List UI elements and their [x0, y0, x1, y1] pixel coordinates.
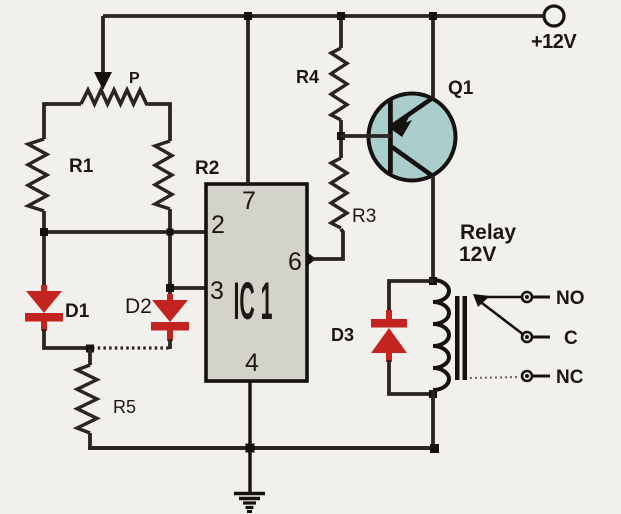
wire pin 4 to ground — [248, 381, 251, 492]
wire R4 top — [339, 16, 343, 48]
node R1 pin2 junction — [40, 228, 48, 236]
diode D3 — [371, 310, 407, 362]
node bottom rail right end — [430, 444, 439, 453]
svg-text:R2: R2 — [195, 158, 219, 179]
svg-text:3: 3 — [210, 277, 224, 305]
relay coil — [433, 280, 449, 390]
svg-text:12V: 12V — [459, 243, 496, 266]
svg-text:Relay: Relay — [460, 221, 516, 244]
contact C — [522, 332, 550, 342]
node R5 top junction — [86, 345, 94, 353]
node R2 pin2 junction — [167, 229, 174, 236]
svg-text:D3: D3 — [331, 325, 354, 345]
IC1 555 timer body — [206, 184, 307, 381]
wire pin 7 — [246, 16, 250, 184]
wire D1 bottom corner — [44, 329, 90, 348]
relay armature to C — [478, 300, 524, 335]
svg-text:D2: D2 — [125, 295, 152, 318]
wire pin 6 to R3 — [312, 229, 343, 259]
ground — [234, 494, 265, 512]
wire pin 2 rail — [44, 230, 206, 234]
wire dotted bottom link D1 D2 — [92, 346, 170, 349]
wire pot left lead — [44, 104, 81, 139]
wire R3 top — [339, 136, 343, 158]
wire bottom ground rail — [88, 446, 436, 450]
node R4 top rail — [337, 12, 345, 20]
svg-text:R4: R4 — [296, 67, 319, 87]
node relay bottom junction — [429, 390, 437, 398]
node pin3 D2 junction — [166, 284, 174, 292]
potentiometer wiper arrow — [94, 72, 112, 90]
wire pin 3 — [170, 286, 206, 290]
svg-text:2: 2 — [211, 211, 225, 239]
resistor R1 — [28, 139, 47, 211]
node base junction — [337, 132, 345, 140]
potentiometer P — [81, 90, 149, 104]
wire D3 bottom to relay bottom — [389, 360, 433, 394]
svg-text:P: P — [129, 70, 140, 87]
terminal +12V — [544, 6, 564, 26]
wire top +12V rail — [103, 14, 543, 18]
wire pot wiper drop — [101, 16, 105, 76]
contact NC — [522, 371, 550, 381]
wire R4 bottom — [339, 120, 343, 136]
relay armature to NO — [477, 296, 523, 299]
pin 6 arrow — [307, 252, 316, 266]
svg-text:R1: R1 — [69, 156, 94, 177]
resistor R5 — [88, 349, 92, 365]
resistor R4 — [331, 48, 347, 120]
wire Q1 emitter to relay — [431, 176, 435, 282]
diode D2 — [151, 294, 189, 341]
relay core bars — [455, 296, 460, 380]
node coil top junction — [429, 277, 437, 285]
resistor R2 — [155, 141, 172, 209]
wire Q1 collector top — [431, 16, 435, 98]
wire D2 bottom — [168, 339, 172, 349]
svg-text:Q1: Q1 — [448, 78, 474, 99]
wire dotted NC arm — [470, 377, 520, 378]
svg-text:D1: D1 — [65, 301, 90, 322]
wire base — [341, 134, 391, 138]
svg-text:R5: R5 — [113, 397, 136, 417]
wire R2 bottom to D2 — [168, 209, 172, 302]
relay armature pivot — [473, 294, 490, 307]
resistor R3 — [331, 158, 347, 228]
svg-text:NC: NC — [556, 367, 584, 388]
transistor Q1 — [369, 94, 456, 181]
node pin7 top rail — [244, 12, 252, 20]
svg-text:6: 6 — [288, 248, 302, 276]
svg-text:IC 1: IC 1 — [234, 272, 273, 331]
svg-text:4: 4 — [245, 349, 259, 377]
wire relay top to D3 — [389, 281, 433, 313]
svg-text:+12V: +12V — [531, 31, 577, 53]
svg-text:R3: R3 — [352, 206, 376, 227]
wire R1 bottom to D1 — [42, 211, 46, 287]
diode D1 — [25, 285, 63, 331]
wire pot right lead — [149, 104, 170, 141]
contact NO — [522, 292, 550, 302]
node ground junction — [246, 444, 255, 453]
wire R5 to bottom rail — [88, 433, 92, 448]
node Q1 top rail — [429, 12, 437, 20]
svg-text:7: 7 — [242, 187, 256, 215]
svg-text:NO: NO — [556, 288, 585, 309]
wire relay bottom drop — [431, 390, 435, 448]
svg-text:C: C — [564, 328, 578, 349]
